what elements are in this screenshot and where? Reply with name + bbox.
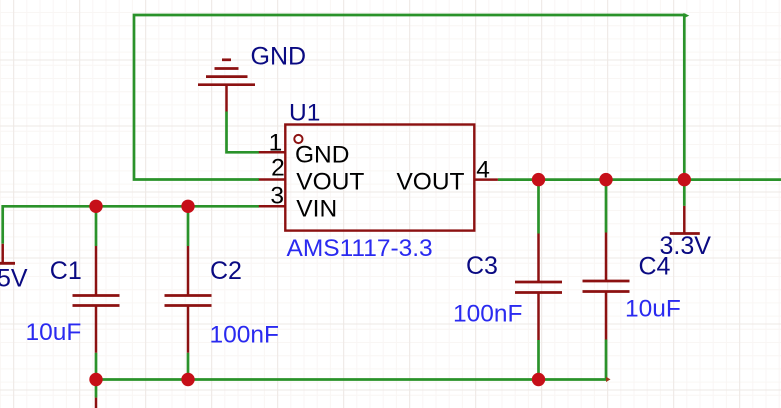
svg-text:100nF: 100nF	[453, 300, 522, 327]
svg-text:C3: C3	[466, 252, 498, 280]
svg-text:5V: 5V	[0, 265, 28, 293]
svg-text:3.3V: 3.3V	[660, 232, 712, 260]
svg-text:VIN: VIN	[296, 195, 337, 222]
svg-text:1: 1	[269, 130, 283, 157]
svg-text:3: 3	[270, 183, 284, 210]
svg-text:2: 2	[271, 154, 285, 181]
svg-text:C2: C2	[210, 257, 242, 285]
svg-text:GND: GND	[251, 43, 307, 71]
svg-text:VOUT: VOUT	[396, 169, 464, 196]
svg-text:GND: GND	[295, 142, 349, 169]
svg-text:AMS1117-3.3: AMS1117-3.3	[287, 235, 433, 262]
svg-text:10uF: 10uF	[26, 319, 82, 346]
svg-text:10uF: 10uF	[625, 295, 681, 322]
svg-text:100nF: 100nF	[210, 322, 279, 349]
svg-text:4: 4	[476, 156, 490, 183]
svg-text:U1: U1	[289, 99, 320, 126]
svg-text:C1: C1	[50, 257, 82, 285]
svg-text:VOUT: VOUT	[296, 169, 364, 196]
